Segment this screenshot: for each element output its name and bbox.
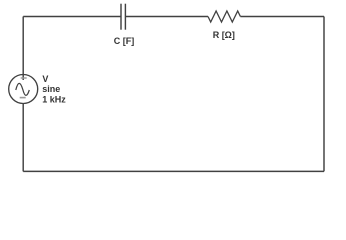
- svg-text:sine: sine: [42, 84, 60, 94]
- svg-text:R [Ω]: R [Ω]: [213, 30, 235, 40]
- svg-text:V: V: [42, 74, 48, 84]
- svg-text:1 kHz: 1 kHz: [42, 95, 66, 105]
- svg-text:C [F]: C [F]: [114, 36, 135, 46]
